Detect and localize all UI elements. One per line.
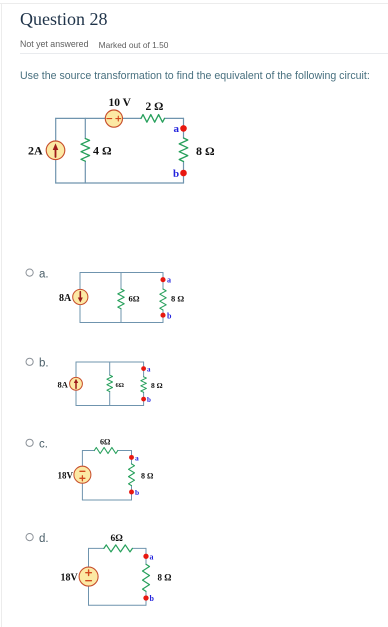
svg-text:6Ω: 6Ω: [116, 382, 124, 389]
circuit c: resistor 8-ohm: [129, 464, 135, 486]
resistor R3 8-ohm: [179, 138, 188, 162]
svg-text:6Ω: 6Ω: [100, 438, 111, 447]
svg-text:8 Ω: 8 Ω: [141, 472, 154, 481]
svg-text:6Ω: 6Ω: [129, 294, 140, 304]
circuit b: middle branch wire: [109, 362, 111, 406]
svg-text:b: b: [147, 396, 151, 404]
circuit b: node a: [141, 366, 151, 374]
svg-text:6Ω: 6Ω: [111, 534, 124, 544]
radio option a: [26, 269, 33, 276]
circuit d: resistor 6-ohm: [104, 545, 132, 552]
circuit d: resistor 8-ohm: [143, 564, 150, 591]
main circuit: top wire: [56, 117, 184, 119]
svg-text:b: b: [173, 168, 179, 180]
resistor R1 4-ohm: [81, 139, 90, 162]
svg-text:8 Ω: 8 Ω: [196, 144, 215, 158]
circuit c: right wire: [131, 451, 133, 501]
circuit c: node b: [129, 488, 139, 497]
svg-text:b: b: [135, 488, 139, 497]
svg-text:2 Ω: 2 Ω: [146, 101, 164, 113]
svg-text:2A: 2A: [28, 144, 43, 158]
circuit b: left wire: [75, 362, 77, 406]
circuit d: right wire: [145, 548, 147, 605]
radio option b: [26, 358, 33, 365]
svg-text:a: a: [135, 454, 139, 463]
resistor R2 2-ohm: [141, 115, 165, 123]
circuit a: bottom wire: [80, 322, 163, 324]
svg-text:8A: 8A: [58, 379, 69, 389]
circuit a: top wire: [80, 272, 163, 274]
svg-text:18V: 18V: [58, 471, 74, 481]
svg-text:b: b: [167, 312, 172, 321]
svg-text:18V: 18V: [61, 573, 79, 584]
circuit b: top wire: [76, 361, 144, 363]
svg-text:b.: b.: [39, 358, 49, 370]
node a: [174, 123, 187, 135]
circuit a: left wire: [79, 273, 81, 323]
circuit a: resistor 6-ohm: [118, 289, 124, 309]
circuit d: bottom wire: [89, 604, 147, 606]
svg-text:10 V: 10 V: [109, 97, 132, 109]
circuit b: bottom wire: [76, 405, 144, 407]
circuit a: right wire: [162, 273, 164, 323]
circuit c: left wire: [81, 451, 83, 501]
radio option c: [26, 439, 33, 446]
circuit c: resistor 6-ohm: [94, 448, 118, 454]
circuit d: left wire: [88, 548, 90, 605]
svg-text:a: a: [174, 123, 180, 135]
node b: [173, 168, 187, 180]
svg-text:d.: d.: [39, 533, 49, 545]
svg-text:8A: 8A: [59, 293, 72, 304]
circuit d: node a: [143, 553, 153, 562]
circuit c: bottom wire: [82, 499, 131, 501]
circuit c: voltage source 18V: [74, 466, 91, 483]
svg-text:a: a: [150, 553, 154, 562]
circuit d: top wire: [89, 547, 147, 549]
current source I1 2A: [46, 141, 65, 160]
svg-text:8 Ω: 8 Ω: [158, 573, 172, 583]
radio option d: [26, 534, 33, 541]
svg-text:4 Ω: 4 Ω: [93, 144, 112, 158]
svg-text:8 Ω: 8 Ω: [151, 381, 163, 390]
svg-text:a: a: [147, 366, 151, 374]
svg-text:a: a: [167, 276, 171, 285]
circuit b: node b: [141, 396, 151, 404]
voltage source V1 10V: [105, 110, 122, 127]
circuit b: right wire: [143, 362, 145, 406]
main circuit: left wire: [55, 118, 57, 183]
circuit a: resistor 8-ohm: [160, 289, 166, 310]
main circuit: right wire (a-b branch): [183, 118, 185, 183]
svg-text:a.: a.: [39, 269, 49, 281]
circuit a: node b: [160, 312, 172, 321]
circuit b: resistor 8-ohm: [141, 377, 147, 393]
main circuit: middle branch wire (4-ohm branch): [84, 118, 86, 183]
svg-text:b: b: [150, 594, 155, 603]
circuit b: current source 8A: [70, 377, 83, 390]
circuit d: node b: [143, 594, 154, 603]
circuit c: node a: [129, 454, 139, 463]
circuit a: node a: [160, 276, 171, 285]
circuit a: middle branch wire: [120, 273, 122, 323]
svg-text:8 Ω: 8 Ω: [171, 294, 184, 304]
svg-text:c.: c.: [39, 439, 48, 451]
circuit a: current source 8A: [73, 289, 88, 304]
circuit c: top wire: [82, 450, 131, 452]
main circuit: bottom wire: [56, 182, 184, 184]
circuit d: voltage source 18V: [79, 567, 98, 586]
circuit b: resistor 6-ohm: [107, 375, 113, 392]
